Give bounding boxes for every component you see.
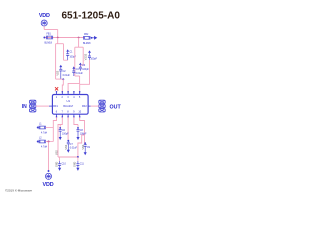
svg-text:8: 8 (67, 111, 69, 114)
svg-text:FB1: FB1 (47, 34, 52, 36)
wire VDD drop to rail (57, 30, 59, 38)
net arrow VDD2 (92, 37, 97, 40)
wire cell2 bottom (75, 75, 80, 77)
capacitor C2 (59, 65, 62, 73)
capacitor C7 (67, 140, 70, 153)
svg-text:100pF: 100pF (90, 59, 97, 61)
svg-text:U1: U1 (67, 99, 71, 103)
svg-text:C10: C10 (62, 164, 67, 166)
svg-text:C4: C4 (76, 69, 80, 71)
svg-text:2: 2 (62, 96, 64, 99)
svg-text:VDD: VDD (39, 13, 50, 19)
wire bottom bus (58, 156, 78, 158)
wire cellB step (78, 135, 85, 157)
svg-text:4: 4 (73, 96, 75, 99)
svg-text:651-1205-A0: 651-1205-A0 (62, 11, 121, 22)
svg-text:4.7uH: 4.7uH (41, 133, 48, 135)
wire down to VDD bottom (48, 142, 50, 172)
svg-text:C1: C1 (70, 52, 74, 54)
wire to pin2 (62, 79, 63, 91)
wire pin8 down (67, 117, 69, 140)
wire pin10 to cellB right (80, 117, 85, 144)
svg-text:BLM18: BLM18 (45, 43, 53, 45)
capacitor C3 (79, 63, 82, 71)
capacitor C4 (72, 66, 75, 74)
svg-text:IN: IN (22, 104, 27, 110)
svg-text:0.01uF: 0.01uF (76, 73, 84, 75)
svg-text:100pF: 100pF (70, 57, 77, 59)
svg-text:VDD: VDD (43, 182, 54, 188)
svg-text:1: 1 (56, 96, 58, 99)
svg-text:100pF: 100pF (62, 134, 69, 136)
VDD bottom power symbol (45, 173, 51, 179)
pin 6 bottom (56, 114, 58, 117)
wire VDD symbol stub (43, 26, 45, 29)
wire cell1 bottom (56, 78, 64, 80)
svg-text:L1: L1 (39, 124, 42, 126)
svg-text:VSS: VSS (83, 144, 85, 149)
ferrite FB2 (84, 36, 90, 40)
op-amp U1 (amplifier IC body) (52, 95, 88, 115)
node rail junction 1 (57, 37, 59, 39)
svg-text:L2: L2 (39, 138, 42, 140)
node bus right (77, 156, 79, 158)
svg-text:XM-A2G7: XM-A2G7 (63, 105, 74, 108)
wire cell2 right vertical (82, 47, 84, 65)
capacitor C10 (59, 157, 61, 161)
wire cell2 left vertical (74, 47, 76, 76)
pin RF2 right (88, 105, 90, 107)
svg-text:C11: C11 (80, 164, 85, 166)
wire drop to cell1 (57, 38, 59, 44)
node VDD/FB1 junction (43, 37, 45, 39)
svg-text:VDD2: VDD2 (86, 53, 88, 60)
node FB2 output dot (91, 37, 93, 39)
svg-text:GND: GND (75, 162, 77, 167)
svg-text:OUT: OUT (110, 104, 122, 110)
pin 5 top (79, 92, 81, 95)
pin 3 top (67, 92, 69, 95)
wire drop to cell2 (78, 38, 80, 48)
wire IN to RF1 (36, 105, 49, 107)
svg-text:VSS: VSS (66, 144, 68, 149)
node VDD bottom junction (48, 170, 50, 172)
VDD top power symbol (41, 20, 47, 26)
pin 9 bottom (73, 114, 75, 117)
svg-text:C2: C2 (63, 71, 67, 73)
svg-text:6: 6 (56, 111, 58, 114)
capacitor C6 (59, 125, 61, 128)
wire pin7 to cellA (58, 117, 62, 157)
svg-text:5: 5 (79, 96, 81, 99)
svg-text:10: 10 (78, 111, 81, 114)
svg-text:C8: C8 (80, 130, 84, 132)
capacitor C9 (84, 142, 87, 155)
node cell1 bottom (62, 78, 64, 80)
node L2 junction (48, 141, 50, 143)
inductor L1 (37, 127, 39, 129)
ferrite FB1 (46, 36, 52, 40)
wire right chain to pin5 (80, 60, 90, 92)
svg-text:VSS: VSS (58, 70, 60, 75)
svg-text:RF2: RF2 (82, 105, 87, 108)
wire RF2 to OUT (91, 105, 99, 107)
svg-text:C7: C7 (70, 144, 74, 146)
capacitor C8 (77, 125, 79, 128)
wire cell2 to pin3 (68, 76, 80, 92)
svg-text:VSS: VSS (57, 150, 59, 155)
no-connect X on pin1 (55, 87, 58, 90)
svg-text:0.01uF: 0.01uF (70, 148, 78, 150)
svg-text:RF1: RF1 (53, 105, 58, 108)
pin 1 top (56, 92, 58, 95)
wire VDD horizontal jog (44, 29, 58, 31)
pin 2 top (61, 92, 63, 95)
svg-text:100pF: 100pF (82, 69, 89, 71)
svg-text:9: 9 (73, 111, 75, 114)
inductor L2 (37, 141, 39, 143)
pin 4 top (73, 92, 75, 95)
pin end dots top (56, 91, 81, 93)
svg-text:C6: C6 (62, 130, 66, 132)
pin 10 bottom (79, 114, 81, 117)
capacitor C1 (66, 49, 69, 57)
pin 8 bottom (67, 114, 69, 117)
pin RF1 left (49, 105, 53, 107)
svg-text:7: 7 (62, 111, 64, 114)
pin end dots bottom (56, 116, 81, 118)
svg-text:BLM18: BLM18 (83, 43, 91, 45)
svg-text:100pF: 100pF (80, 134, 87, 136)
wire cell1 right vertical (63, 44, 65, 61)
connector J1 (input) (30, 100, 36, 103)
svg-text:C9: C9 (87, 147, 91, 149)
capacitor C11 (77, 157, 79, 161)
node rail junction 2 (78, 37, 80, 39)
svg-text:4.7uH: 4.7uH (41, 147, 48, 149)
svg-text:C3: C3 (82, 65, 86, 67)
capacitor C5 (right chain) (88, 50, 91, 52)
wire cell2 top (75, 46, 83, 48)
svg-text:FB2: FB2 (84, 34, 89, 36)
svg-text:GND: GND (56, 162, 58, 167)
pin 7 bottom (61, 114, 63, 117)
wire pin6 to left rail (53, 117, 56, 141)
wire cell1 left vertical (55, 44, 57, 79)
wire VDD rail (44, 37, 84, 39)
wire cell1 top (56, 43, 64, 45)
svg-text:©2019 X-Microwave: ©2019 X-Microwave (5, 189, 32, 193)
svg-text:0.01uF: 0.01uF (63, 75, 71, 77)
connector J2 (output) (99, 100, 105, 103)
wire pin9 to cellB (74, 117, 78, 124)
